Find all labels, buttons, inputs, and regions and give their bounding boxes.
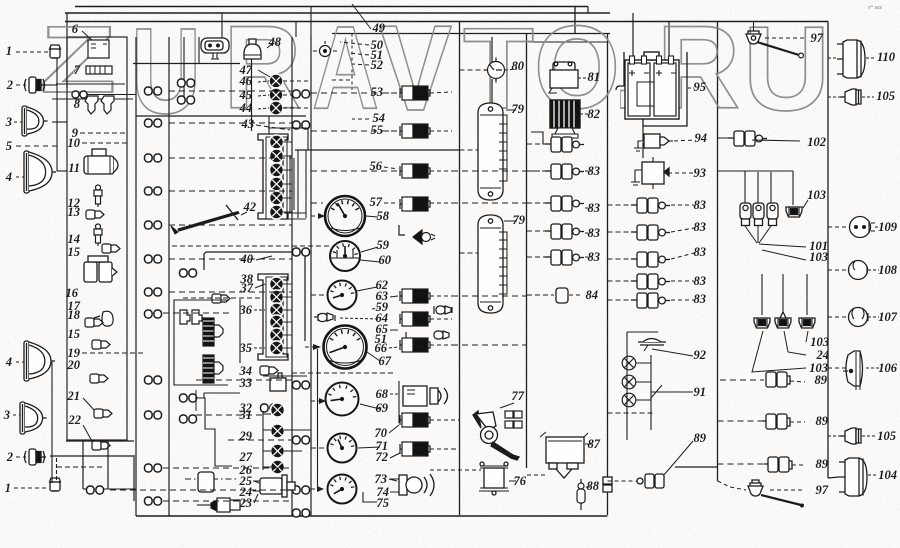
headlamp 4 upper [24, 151, 56, 193]
bulb lamp 1 bottom [50, 478, 61, 491]
wire panel bottom bus [50, 455, 135, 457]
wire branch frame [745, 170, 793, 172]
bulb lamp 1 top [50, 45, 61, 58]
wire fuse36-5 stub [283, 334, 292, 336]
wire row into80 [460, 69, 488, 71]
connector pair 77b [505, 421, 522, 428]
wire drop 24b [782, 274, 784, 312]
wire relay57 out [430, 202, 452, 204]
wire row y84 [56, 83, 125, 85]
watermark ZURAVTO.RU [40, 0, 830, 139]
lever 17 [94, 311, 113, 326]
pilot lamp 65 symbol [434, 306, 452, 314]
connector pair 32 [261, 404, 278, 412]
left equipment panel box [67, 37, 127, 440]
wire 105b lead [862, 435, 875, 437]
switch pair 37 [180, 310, 202, 324]
wire leader 77 [500, 403, 514, 408]
wire 89c lead [792, 464, 805, 466]
wire leader 83a [585, 170, 591, 172]
relay 63 [400, 289, 430, 303]
sensor 14 [94, 224, 102, 246]
instrument lamp y363 [622, 356, 636, 370]
relay 66 [400, 338, 430, 352]
relay 83 left 1 [545, 137, 584, 152]
wire 110 in [828, 57, 837, 59]
wire leader 52 [352, 64, 369, 65]
wire cross row y91 [169, 90, 292, 92]
wire fuse43-3 stub [283, 169, 292, 171]
wire sw right1 [284, 429, 311, 431]
wire arrow into 58 [311, 215, 323, 217]
wire 43 leader [256, 125, 290, 130]
relay 83 right 1 [631, 198, 670, 213]
wire leader 59 [361, 247, 378, 252]
wire headlamp3 link [52, 121, 67, 123]
wire leader 95 [688, 87, 694, 89]
wire leader 91 [651, 391, 693, 393]
wire headlamp4b link [51, 362, 53, 381]
lamp 46 [269, 88, 283, 102]
wire 89a lead [790, 381, 805, 382]
wire row 131 left [311, 130, 398, 132]
wire leader 53 [385, 92, 398, 94]
wire 104 lead [868, 474, 877, 476]
wire branch top [718, 170, 746, 172]
lamp 44 [269, 101, 283, 115]
relay 83 right 3 [631, 252, 670, 267]
battery 95 [625, 52, 679, 119]
nozzle pair 8 [85, 96, 114, 114]
wire 89 low dash [608, 480, 638, 482]
fuse link b [753, 203, 764, 226]
wire lead 3 [14, 121, 22, 123]
fuse link a [740, 203, 751, 226]
starter switch 94 [634, 134, 673, 151]
wire sw rail [262, 411, 264, 470]
wire top bus D [528, 41, 608, 43]
wire lead 5 [16, 145, 57, 147]
terminal 103 left [754, 318, 770, 328]
wire relay83R3 in [608, 258, 632, 260]
relay 55 [400, 124, 430, 138]
wire conn stub left [83, 488, 88, 490]
plug 105 top [840, 89, 861, 105]
wire riser x296 [295, 22, 297, 38]
wire top bus A2 [65, 12, 610, 14]
wire leader 88 [586, 486, 590, 488]
connector on left ladder y468 [145, 464, 162, 472]
connector 84 [556, 288, 568, 303]
wire conn stub right [103, 488, 136, 490]
wire leader 93 [668, 172, 694, 174]
wire leader 81 [578, 77, 589, 79]
clearance lamp 2 top [25, 77, 47, 93]
wire leader n1 [752, 331, 806, 372]
wire leader 48 [267, 44, 272, 48]
wire leader 83h [671, 280, 694, 282]
tail lamp 110 [837, 40, 865, 78]
gauge 74 ammeter lower [328, 475, 357, 504]
dome lamp 48 [244, 39, 261, 59]
wire 97t drop [753, 22, 755, 32]
wire ladder rail x199 [198, 37, 200, 64]
wire row 203 left [311, 202, 323, 204]
lamp 106 [843, 351, 863, 390]
flasher relay 87 [540, 432, 588, 478]
wire leader 83i [671, 299, 694, 301]
wire fuse36 link vertical [239, 299, 241, 363]
wire drop 24c [806, 274, 808, 315]
sensor 22 [92, 441, 110, 450]
wire leader 21 [83, 398, 95, 411]
relay 83 left 2 [545, 164, 584, 179]
wire cross row y415 [196, 414, 263, 416]
terminal 103 right [799, 318, 815, 328]
connector on left ladder y225 [145, 221, 162, 229]
wire leader 6 [82, 31, 96, 44]
fuse holder 7 [86, 66, 112, 74]
connector 102 [728, 131, 767, 146]
wire branch drop4 [792, 171, 794, 205]
wire relay83R5 in [608, 299, 632, 301]
wire 84 left [527, 294, 554, 296]
wire row y295 left [311, 294, 326, 296]
voltage regulator 68 [403, 386, 448, 406]
connector 37a [212, 294, 230, 303]
wire relay83R1 in [608, 204, 632, 206]
switch 89c [764, 457, 792, 472]
wire row 34 [263, 375, 307, 377]
wire main vertical x527 [526, 34, 528, 469]
switch 89b [762, 414, 790, 429]
connector on left ladder y380 [145, 376, 162, 384]
fuse 36-2 [270, 290, 284, 304]
wire cross row y313 [163, 312, 230, 314]
wire 45 leader [258, 95, 269, 96]
wire lead 2 lower [16, 456, 26, 458]
antenna plug 97 top [746, 31, 761, 44]
wire 40 bracket [256, 256, 272, 260]
horn 73 [390, 474, 434, 496]
terminal 24 [775, 312, 791, 328]
connector on center ladder y385 [293, 381, 310, 389]
switch panel 79 lower [478, 215, 507, 313]
wire dashdot 30 [185, 478, 237, 480]
wire dashed row y467 [57, 466, 103, 468]
wire leader 51 [348, 53, 369, 55]
motor 16 [84, 256, 117, 282]
wire bottom bus [136, 515, 608, 517]
wire fuse36-2 stub [283, 296, 292, 298]
wire top bus B [65, 21, 828, 23]
wire relay63 right dash [452, 295, 527, 297]
wire sw stub2 [263, 429, 271, 431]
wire left corner 5-4 [56, 146, 58, 171]
connector on center ladder y252 [293, 248, 310, 256]
wire 109 in [828, 226, 849, 228]
fuse block 43 bus box [290, 150, 306, 218]
headlamp 3 [22, 106, 48, 136]
wire center rail x292 [291, 37, 293, 516]
wire ladder rail x184 [183, 37, 185, 100]
wire fuse43-6 stub [283, 211, 292, 213]
fuse 43-2 [270, 149, 284, 163]
wire to 101 [759, 244, 806, 247]
wire bracket 68-70 [398, 381, 400, 423]
wire 42 leader [241, 212, 247, 215]
wire bracket 83 top [531, 132, 551, 144]
clearance lamp 2 lower [25, 449, 47, 465]
wire arrow into 74 [311, 488, 320, 490]
wire 106 lead [866, 367, 879, 369]
arrow head 67 [313, 344, 321, 350]
sender 35b [203, 355, 223, 383]
wire drop 24a [761, 274, 763, 315]
connector second column c [180, 415, 197, 423]
wire relay55 out [430, 130, 452, 132]
fuse 43-4 [270, 177, 284, 191]
wire riser x352 [351, 34, 353, 91]
wire lead 1 [16, 51, 48, 53]
wire ladder rail x169 [168, 37, 170, 516]
wire to headlamp 4 [57, 170, 67, 172]
foot dimmer switch 77 [473, 411, 519, 460]
wire 105t in [828, 96, 840, 98]
terminal 103 top [786, 207, 802, 217]
fuse 43-6 [270, 205, 284, 219]
fuse 36-1 [270, 277, 284, 291]
fuel tank switch 80 [484, 58, 505, 83]
wire 110 lead [866, 57, 874, 59]
wire 47 leader [258, 70, 270, 77]
wire cross row y123 [169, 122, 292, 124]
wire leader 67 [367, 352, 380, 361]
wire 97 top cable [757, 42, 799, 55]
wire cross row y380 [196, 379, 292, 381]
connector on left ladder y292 [145, 288, 162, 296]
relay 71 [400, 442, 430, 456]
ignition coil 82 [550, 100, 580, 138]
wire 77 dash [527, 474, 546, 476]
wire top bus A [75, 6, 588, 8]
connector on center ladder y440 [293, 436, 310, 444]
relay 83 right 5 [631, 293, 670, 308]
wire right panel right rail [827, 22, 829, 479]
wire relay56 in [311, 170, 398, 172]
switch lamp col y451 [271, 444, 285, 458]
wire leader 83d [585, 256, 591, 258]
wire leader 22 [83, 425, 93, 443]
wire top bus C [332, 33, 610, 35]
relay 56 [400, 164, 430, 178]
wire leader 76 [509, 480, 516, 482]
wire row 19 [82, 352, 145, 354]
wire 84 right [569, 294, 583, 296]
plafond 108 [849, 261, 868, 280]
horn button symbol [313, 41, 337, 57]
wire leader 92 [652, 349, 693, 356]
relay 64 [400, 312, 430, 326]
fuse 43-5 [270, 191, 284, 205]
wire row into79a [460, 149, 479, 151]
sensor 15b [92, 340, 110, 349]
wire relay83L5 in [527, 256, 545, 258]
wire leader 68 [390, 393, 400, 395]
lamp 47 [269, 74, 283, 88]
wire 35 leader [254, 347, 265, 349]
wire leader 71 [358, 447, 380, 448]
wire top bus A jog [587, 7, 589, 14]
arrow head 58 [318, 213, 325, 219]
wire main vertical x607 [607, 34, 609, 516]
wire gauge feed vertical [317, 349, 319, 489]
connector second column b [180, 394, 197, 402]
sensor 20 [90, 374, 108, 383]
relay 83 left 3 [545, 196, 584, 211]
wire 102 right [752, 140, 800, 141]
wire fuse36-4 stub [283, 321, 292, 323]
wire 89a dash [720, 379, 764, 381]
relay regulator 81 [549, 62, 578, 93]
wire leader 72 [390, 453, 400, 458]
wire leader 63 [390, 296, 398, 297]
wire to 103mid [762, 250, 806, 260]
wire drop 48a [221, 13, 223, 38]
wire center rail x311 [310, 37, 312, 516]
wire box under 40 [204, 252, 305, 341]
relay 83 left 5 [545, 250, 584, 265]
wire cross row y259 [169, 258, 292, 260]
wire 44 leader [258, 108, 269, 109]
wire lamp46 stub [283, 80, 311, 82]
wire lamp363 right [636, 362, 651, 364]
wire fuse36-6 stub [283, 347, 292, 349]
pilot lamp 66b symbol [434, 331, 449, 339]
wire relay83R2 in [608, 231, 632, 233]
wire leader 56 [384, 167, 398, 169]
ignition switch 23 [253, 475, 295, 497]
dome lamp 92 [638, 339, 666, 352]
wire row 93 left [311, 92, 398, 94]
wire lamp diag [651, 385, 662, 398]
wire leader 89j [662, 441, 693, 477]
relay 83 left 4 [545, 224, 584, 239]
wire converge a [745, 226, 757, 243]
fuse 36-3 [270, 303, 284, 317]
wire 97t lead [765, 37, 805, 39]
wire cluster top [627, 331, 658, 333]
screwdriver adjustment 42 [171, 205, 239, 234]
wire cross row y490 [110, 489, 292, 491]
wire drop y393 [203, 393, 205, 398]
fuse 36-6 [270, 341, 284, 355]
wire leader 50 [340, 42, 369, 45]
connector second column a2 [178, 96, 195, 104]
wire fuse43-2 stub [283, 155, 292, 157]
wire row y128 [268, 127, 308, 129]
wire panel drop b [107, 441, 109, 489]
wire heavy row y150 [295, 149, 460, 151]
wire leader 70 [389, 425, 399, 433]
switch lamp col y467 [271, 460, 285, 474]
switch lamp col y410 [271, 403, 285, 417]
wire cross row y158 [169, 157, 292, 159]
pilot lamp 64 symbol [314, 313, 335, 322]
wire left vertical b [51, 381, 53, 483]
wire relay66 out [430, 344, 452, 346]
wire lead 1 bottom [14, 487, 48, 489]
horn 11 [84, 149, 118, 174]
gauge 60 split [330, 250, 360, 258]
wire row 56 left [311, 170, 398, 172]
connector on left ladder y314 [145, 310, 162, 318]
wire 23 leader [254, 494, 258, 503]
wire arrow into 67 [305, 346, 317, 348]
wire lamp45 stub [283, 94, 311, 96]
wire row y94 [87, 94, 136, 96]
relay 70 [400, 413, 430, 427]
antenna plug 97 bottom [748, 480, 763, 496]
wire relay70 right dash [430, 419, 460, 421]
wire batt bottom drop [642, 126, 644, 158]
wire cross row y191 [169, 190, 292, 192]
fuse 88 [577, 479, 585, 510]
connector on left ladder y191 [145, 187, 162, 195]
wire cross row y501 [163, 500, 292, 502]
sensor 21 [94, 409, 112, 418]
wire dash row y373 [292, 372, 396, 374]
wire lamp column vertical [251, 59, 253, 131]
connector on left ladder y259 [145, 255, 162, 263]
fuse 36-4 [270, 315, 284, 329]
wire cross row y292 [169, 291, 292, 293]
wire relay57 right dash [452, 202, 527, 204]
wire riser x311 [310, 7, 312, 38]
wire converge b [757, 226, 759, 243]
wire relay64 out [430, 318, 452, 320]
wire fuse43-1 stub [283, 141, 292, 143]
wire leader 83f [671, 228, 694, 232]
wire 97 bottom cable [761, 495, 801, 505]
wire leader 60 [360, 260, 380, 262]
sensor 12 [94, 185, 102, 207]
wire relay63 out [430, 295, 452, 297]
wire leader 54 [352, 118, 369, 120]
wire dash y413 [608, 412, 656, 414]
wire row y448 left [311, 447, 326, 449]
wire 89b lead [790, 421, 805, 423]
connector on left ladder y123 [145, 119, 162, 127]
switch panel 79 upper [478, 103, 507, 200]
connector pair bottom left [87, 486, 104, 494]
fuse 43-1 [270, 135, 284, 149]
wire leader 83b [585, 207, 591, 209]
switch lamp col y431 [271, 424, 285, 438]
wire 102 left [718, 137, 729, 139]
wire cross row y225 [169, 224, 292, 226]
wire row y116 [136, 115, 306, 117]
sender 35a [203, 318, 223, 346]
brake switch 76 [479, 462, 509, 495]
wire row 9 [80, 132, 127, 134]
arrow head 69 [319, 398, 326, 404]
wire 107 lead [868, 316, 879, 318]
wire lead 4 lower [16, 361, 24, 363]
wire relay71 right dash [452, 448, 460, 450]
plafond 107 [849, 308, 869, 327]
wire leader 82 [580, 113, 590, 115]
